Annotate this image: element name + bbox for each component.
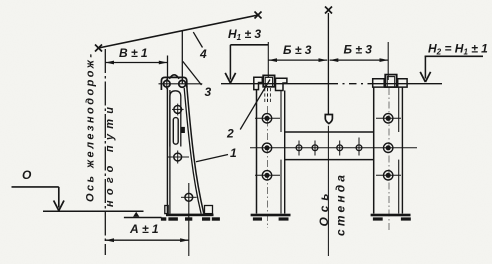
leader line for item 2 <box>240 80 270 130</box>
column base right flange <box>205 206 213 214</box>
datum O leader vertical with arrow <box>58 187 60 208</box>
svg-text:Ось: Ось <box>317 194 331 227</box>
svg-text:3: 3 <box>205 85 212 99</box>
stand right column left edge <box>373 87 375 213</box>
clamp block beside slot <box>181 127 185 133</box>
datum O leader horizontal <box>12 186 59 188</box>
stand right column right edge outer <box>401 87 403 213</box>
svg-text:4: 4 <box>199 47 207 61</box>
dimension B+-1 line with arrows <box>105 56 167 81</box>
crossbeam hole 4 <box>356 138 362 156</box>
stand left clamp right piece <box>276 78 287 90</box>
label H2 underline <box>425 55 483 57</box>
roller circle right <box>179 80 186 87</box>
wire: stand axis vertical centerline <box>327 13 329 114</box>
stand crossbeam bottom edge <box>285 159 374 161</box>
label H1 leader horizontal <box>230 44 268 46</box>
hidden bolt line left clamp <box>267 88 269 104</box>
svg-text:В ± 1: В ± 1 <box>119 46 148 60</box>
svg-text:Ось железнодорож-: Ось железнодорож- <box>85 54 97 202</box>
crossbeam hole 3 <box>337 141 343 156</box>
hole circle C in column <box>185 193 193 201</box>
wire: tick through left roller <box>166 79 168 90</box>
node: X mark at top of stand axis <box>325 7 332 14</box>
wire: centerline through hole C down to dimension A <box>188 183 190 256</box>
plumb bob on stand axis <box>325 115 332 124</box>
wire: vertical line from cord down to top roller <box>181 31 183 84</box>
node: X mark at right end of cord <box>255 12 262 19</box>
hidden bolt side line left clamp <box>264 88 266 103</box>
stand left clamp bolt head <box>263 75 274 86</box>
stand right column right edge inner lower <box>398 160 400 214</box>
stand datum level line middle dashed <box>331 83 374 85</box>
crossbeam hole 2 <box>312 141 318 156</box>
stand left column pads <box>253 217 289 220</box>
stand left column bolt centerline <box>267 106 269 228</box>
column web arch opening <box>170 91 181 147</box>
hole circle A in column <box>174 106 182 114</box>
stand datum level line left <box>221 83 331 85</box>
wire: stand axis below plumb bob <box>327 126 329 256</box>
column base left flange <box>165 206 168 214</box>
ground rail level line <box>43 210 144 212</box>
stand right column bolt centerline <box>388 88 390 232</box>
slot in column web <box>173 118 178 145</box>
hole circle B in column <box>174 153 182 161</box>
foundation level line <box>124 217 162 219</box>
stand left column right edge inner lower <box>280 160 282 214</box>
label H1 leader vertical with arrow <box>229 45 231 80</box>
svg-text:Н1 ± 3: Н1 ± 3 <box>228 27 261 42</box>
crosshair of hole C <box>181 196 197 198</box>
column cap outline <box>161 77 186 90</box>
column cap hump between rollers <box>169 75 179 79</box>
stand left column base plate <box>251 214 291 217</box>
svg-text:А ± 1: А ± 1 <box>129 222 159 236</box>
stand right clamp left flange <box>373 79 385 87</box>
stand right column bolt 3 <box>376 171 401 180</box>
column base plate <box>166 214 214 217</box>
stand right clamp right flange <box>398 79 407 87</box>
svg-text:Б ± 3: Б ± 3 <box>283 43 312 57</box>
svg-text:2: 2 <box>226 127 234 141</box>
stand right column pads <box>373 217 411 220</box>
column 1 body left edge outer <box>166 88 168 214</box>
stand left column right edge outer <box>284 91 286 214</box>
stand crossbeam top edge <box>285 131 374 133</box>
label H2 leader vertical with arrow <box>424 56 426 78</box>
column 1 body left edge inner <box>169 90 171 214</box>
level mark triangle <box>133 212 139 217</box>
stand right column bolt 2 <box>384 143 393 152</box>
stand right column right edge inner <box>398 87 400 132</box>
stand datum level line right <box>373 83 442 85</box>
svg-text:1: 1 <box>230 146 237 160</box>
leader line for item 1 <box>196 155 228 162</box>
stand left column left edge <box>256 90 258 214</box>
column 1 right edge outer curve <box>187 86 204 214</box>
crossbeam hole 1 <box>296 141 302 156</box>
svg-text:Б ± 3: Б ± 3 <box>344 43 373 57</box>
wire: railway track axis vertical line <box>104 49 106 255</box>
column 1 right edge inner curve <box>184 88 201 214</box>
dimension B left line with arrows <box>268 59 327 61</box>
roller circle left <box>164 81 171 88</box>
dimension B right line with arrows <box>330 59 389 61</box>
column foundation pads <box>161 217 220 220</box>
leader line for item 4 <box>193 32 202 47</box>
crosshair of hole B <box>168 151 190 164</box>
stand right column base plate <box>371 214 411 217</box>
wire: crosshair through rollers <box>159 83 203 85</box>
leader line for item 3 <box>183 61 202 85</box>
stand left column bolt 1 <box>255 114 280 123</box>
dimension A+-1 line with arrows <box>105 239 189 241</box>
dimension B(left)+-3 extension line <box>267 42 269 77</box>
stand left clamp hook <box>254 77 262 89</box>
stand left column right edge inner <box>280 91 282 133</box>
node: X mark at left end of cord <box>95 45 102 52</box>
wire: long horizontal centerline of stand <box>250 147 417 149</box>
dimension B(right)+-3 extension line <box>387 42 389 80</box>
stand left column bolt 3 <box>255 171 280 180</box>
wire: diagonal cord line 4 from railway axis to stand axis <box>99 15 259 48</box>
stand left column bolt 2 <box>262 143 271 152</box>
stand right clamp bolt head <box>385 75 397 88</box>
crosshair of hole A <box>172 104 184 116</box>
svg-text:О: О <box>22 168 32 182</box>
stand right column bolt 1 <box>376 114 401 123</box>
